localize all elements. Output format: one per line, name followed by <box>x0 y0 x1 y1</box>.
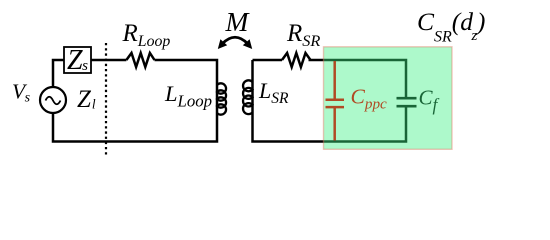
resistor R_SR <box>282 53 311 67</box>
dashed boundary line <box>105 43 107 155</box>
inductor L_SR <box>243 80 252 114</box>
svg-text:M: M <box>225 6 251 37</box>
green highlight box C_SR region <box>324 47 453 150</box>
capacitor C_ppc <box>326 61 345 141</box>
wire left loop <box>53 60 217 142</box>
impedance box Z_s <box>64 45 91 76</box>
wire right loop <box>253 60 407 142</box>
resistor R_Loop <box>126 53 154 67</box>
voltage source V_s <box>40 87 66 113</box>
capacitor C_f <box>397 98 417 106</box>
inductor L_Loop <box>217 83 226 114</box>
mutual coupling arrow <box>218 37 252 49</box>
